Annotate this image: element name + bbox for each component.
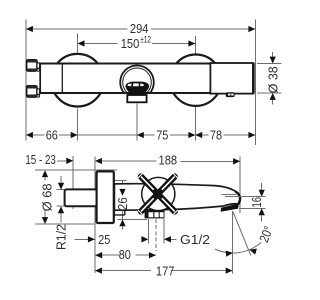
svg-text:26: 26: [115, 197, 130, 210]
svg-text:80: 80: [119, 247, 131, 262]
svg-text:15 - 23: 15 - 23: [25, 152, 56, 167]
svg-text:25: 25: [98, 232, 110, 247]
svg-text:66: 66: [46, 128, 58, 143]
svg-text:75: 75: [156, 128, 168, 143]
svg-text:188: 188: [159, 153, 178, 168]
svg-text:R1/2: R1/2: [53, 224, 68, 250]
svg-text:177: 177: [156, 264, 175, 279]
svg-text:±12: ±12: [140, 35, 151, 46]
svg-text:16: 16: [249, 197, 264, 208]
svg-text:78: 78: [210, 128, 222, 143]
svg-text:G1/2: G1/2: [180, 232, 210, 247]
svg-text:Ø 38: Ø 38: [265, 66, 280, 93]
svg-text:150: 150: [121, 36, 140, 51]
svg-text:Ø 68: Ø 68: [39, 183, 54, 211]
